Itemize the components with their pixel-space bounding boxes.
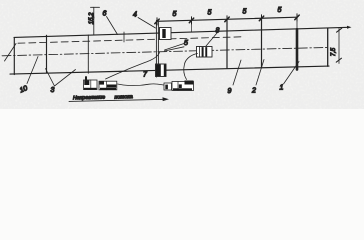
paper noise [0,0,364,109]
cart3 dark block [185,81,194,85]
svg-text:2: 2 [251,88,256,95]
svg-text:потока: потока [114,94,132,101]
cable horizontal [118,84,164,86]
panel joint x=88 [87,35,89,73]
cart2 divider [106,81,108,90]
cart1 body [84,80,98,90]
item 8 inner line a [199,47,201,58]
cable mast to cart [106,53,160,80]
leader 10 [27,57,38,84]
leader 4 [138,18,156,29]
hidden dashed line [18,37,242,43]
mast (drive frame) [155,21,157,78]
panel joint x=46 [46,35,48,72]
flow arrow line [69,99,165,101]
mast bottom box [156,64,167,77]
dim tick 1 [156,18,158,25]
centerline [2,47,328,55]
cart3 bottom band [173,88,192,90]
cable box to cart3 [184,54,198,80]
svg-text:6: 6 [103,11,107,18]
cart2 body [99,81,117,90]
short joint x=124 [123,32,125,42]
dim line 7,5 vertical [338,28,340,63]
cart1 bottom band [84,88,97,90]
conveyor top edge [14,27,349,37]
panel joint 261.5 [261,19,263,68]
dim tick 3 [226,16,228,23]
station dim extension 15,2 [93,7,95,35]
top dimension line [157,17,297,21]
cart3 wheel dark [165,85,168,90]
thick vertical 297 [296,17,298,29]
svg-text:7,5: 7,5 [331,47,337,56]
cart3 inner dark [179,84,182,88]
mast bottom box dark right [164,64,166,76]
cart1 dark block [84,80,89,85]
cart1 stack [85,76,87,80]
leader 9 [233,60,241,85]
cart2 dark block [99,81,104,84]
svg-text:4: 4 [133,12,137,19]
cart1 divider [90,80,92,90]
break slash [5,44,17,62]
svg-text:5: 5 [184,40,188,47]
svg-text:5: 5 [173,11,177,18]
svg-text:8: 8 [216,28,220,35]
svg-text:5: 5 [208,10,212,17]
mast bottom box dark left [156,64,161,76]
panel joint 227 [226,20,228,69]
conveyor bottom edge [10,66,329,74]
dim slant tick top [337,28,342,32]
svg-text:5: 5 [243,9,247,16]
svg-text:15,2: 15,2 [89,12,95,24]
item 8 dark bar b [205,47,207,56]
right end vertical [327,29,329,67]
dim tick 5 [296,14,298,21]
left end vertical [13,38,15,75]
top right arrow [347,26,352,29]
cart3 inner divider [177,82,179,91]
cart2 dark band [107,85,116,88]
leader 1 [284,62,300,85]
cart2 bottom band [100,88,116,90]
item 8 dark bar a [202,47,204,56]
leader 3 [46,69,76,87]
dim tick 4 [261,15,263,22]
dim tick 2 [191,17,193,24]
leader 8 [206,33,217,46]
station top tick [91,6,100,8]
mid label 5 wedge arrow [165,44,185,51]
dim slant tick bottom [336,58,341,62]
leader 2 [256,60,264,86]
mast top box [160,28,172,40]
svg-text:5: 5 [278,7,282,14]
leader 6 [107,17,118,35]
svg-text:3: 3 [51,87,55,94]
svg-text:1: 1 [280,85,284,92]
cart3 body [172,82,194,91]
item 8 box [197,47,213,58]
extension 191.5 [191,21,193,32]
svg-text:9: 9 [228,88,232,95]
mast top box dark strip [162,29,165,38]
cart3 wheel unit [164,83,172,90]
